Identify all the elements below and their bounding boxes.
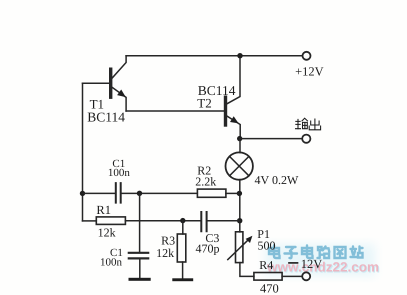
ground (C1) <box>129 278 151 281</box>
wire: C3 to lamp rail <box>207 220 239 222</box>
transistor T1 emitter <box>112 87 127 111</box>
svg-text:+12V: +12V <box>295 64 324 78</box>
resistor R4 470 <box>254 273 282 281</box>
capacitor C1 100n (coupling) <box>116 183 121 203</box>
wire: R2 to lamp rail <box>226 192 240 194</box>
resistor R3 12k <box>177 234 186 262</box>
svg-text:2.2k: 2.2k <box>195 175 216 189</box>
wire: T1 collector diagonal <box>112 56 127 79</box>
wire: top +12V rail <box>126 55 302 57</box>
svg-text:4V 0.2W: 4V 0.2W <box>255 173 299 187</box>
svg-text:R1: R1 <box>96 203 111 217</box>
wire: cap to ground <box>139 260 141 278</box>
svg-text:12V: 12V <box>301 257 323 271</box>
capacitor C3 470p <box>201 212 206 231</box>
node: left rail C1 junction <box>80 191 85 196</box>
resistor R1 12k <box>96 217 125 225</box>
node: R3 top junction <box>180 218 185 223</box>
wire: lamp rail lower <box>239 180 241 232</box>
svg-text:R4: R4 <box>259 258 273 272</box>
transistor T2 base bar <box>224 97 227 125</box>
wire: output wire <box>240 138 303 140</box>
svg-text:470: 470 <box>260 282 279 295</box>
wire: lamp rail upper <box>239 139 241 153</box>
wire: column from C1 junction down <box>139 193 141 252</box>
wire: R3 to ground <box>182 262 184 278</box>
label -12V <box>289 262 298 264</box>
label 输出 (output) <box>296 118 321 129</box>
transistor T2 emitter <box>227 116 240 139</box>
terminal -12V <box>302 272 310 280</box>
svg-text:470p: 470p <box>196 242 220 256</box>
node: T2 emitter junction <box>237 136 242 141</box>
transistor T2 collector <box>227 56 240 104</box>
ground (R3) <box>172 278 193 281</box>
node: lamp/R2 junction <box>237 191 242 196</box>
wire: T1 base wire <box>83 82 110 84</box>
node: C1 right junction <box>137 191 142 196</box>
wire: left rail <box>82 83 84 221</box>
wire: R4 to terminal <box>282 275 302 277</box>
watermark background wash <box>265 244 375 276</box>
svg-text:500: 500 <box>258 238 276 252</box>
svg-text:100n: 100n <box>100 257 123 269</box>
wire: R3 column top <box>182 221 184 234</box>
node: junction top rail / T2 collector <box>237 53 242 58</box>
wire: C1 to R2 <box>122 192 198 194</box>
node: lamp/C3 row junction <box>237 218 242 223</box>
wire: P1 to R4 <box>240 263 254 277</box>
lamp LP1 4V 0.2W <box>226 152 253 179</box>
svg-text:T2: T2 <box>197 95 211 110</box>
watermark line2 www.cndz22.com <box>266 260 380 276</box>
watermark line1 电子电路图站 <box>269 246 363 259</box>
resistor R2 2.2k <box>197 189 226 197</box>
terminal +12V <box>303 52 311 60</box>
svg-text:12k: 12k <box>98 225 116 239</box>
wire: R1 to C3 <box>125 220 200 222</box>
svg-text:12k: 12k <box>156 246 174 260</box>
capacitor C1 100n (bypass) <box>129 253 148 259</box>
svg-text:www.cndz22.com: www.cndz22.com <box>266 260 379 275</box>
svg-text:BC114: BC114 <box>87 109 125 124</box>
transistor T1 base bar <box>109 69 112 97</box>
wire: left rail corner to R1 <box>83 220 97 222</box>
terminal output <box>302 135 310 143</box>
wire: C1 row left <box>83 192 115 194</box>
wire: T1 emitter to T2 base <box>126 110 224 112</box>
potentiometer P1 500 <box>236 232 243 263</box>
svg-text:100n: 100n <box>108 167 130 179</box>
